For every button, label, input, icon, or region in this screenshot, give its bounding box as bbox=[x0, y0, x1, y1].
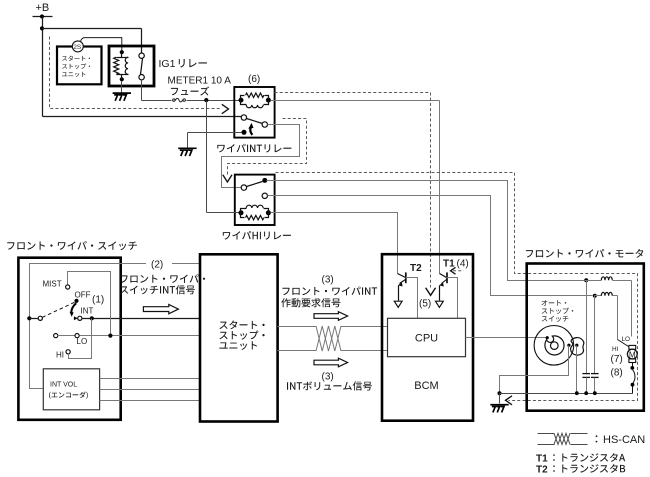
svg-text:T2: T2 bbox=[536, 464, 548, 475]
svg-text:HS-CAN: HS-CAN bbox=[603, 434, 645, 446]
svg-text:M: M bbox=[629, 350, 636, 359]
svg-text:BCM: BCM bbox=[414, 380, 438, 392]
svg-text:(6): (6) bbox=[248, 74, 260, 85]
svg-text:IG1: IG1 bbox=[159, 58, 176, 70]
svg-text:METER1 10 A: METER1 10 A bbox=[168, 76, 232, 87]
svg-text:(3): (3) bbox=[322, 372, 334, 383]
svg-text:OFF: OFF bbox=[75, 291, 91, 300]
svg-text:MIST: MIST bbox=[43, 280, 62, 289]
svg-text:LO: LO bbox=[77, 337, 88, 346]
svg-text:2S: 2S bbox=[73, 44, 82, 51]
svg-text:(7): (7) bbox=[611, 354, 623, 365]
svg-text:(3): (3) bbox=[322, 274, 334, 285]
svg-text:(1): (1) bbox=[92, 295, 104, 306]
svg-text:LO: LO bbox=[622, 336, 631, 343]
svg-text:HI: HI bbox=[56, 351, 64, 360]
svg-text:HI: HI bbox=[612, 346, 619, 353]
svg-text:(5): (5) bbox=[419, 299, 431, 310]
svg-text:CPU: CPU bbox=[415, 333, 438, 345]
svg-text:T2: T2 bbox=[410, 263, 422, 274]
svg-text:(4): (4) bbox=[457, 259, 469, 270]
svg-text:+B: +B bbox=[36, 2, 50, 14]
svg-text:T1: T1 bbox=[536, 453, 548, 464]
svg-text:T1: T1 bbox=[443, 259, 455, 270]
svg-text:(2): (2) bbox=[151, 260, 163, 271]
svg-text:INT VOL: INT VOL bbox=[50, 381, 77, 388]
svg-text:INT: INT bbox=[81, 307, 94, 316]
svg-text:(8): (8) bbox=[611, 367, 623, 378]
